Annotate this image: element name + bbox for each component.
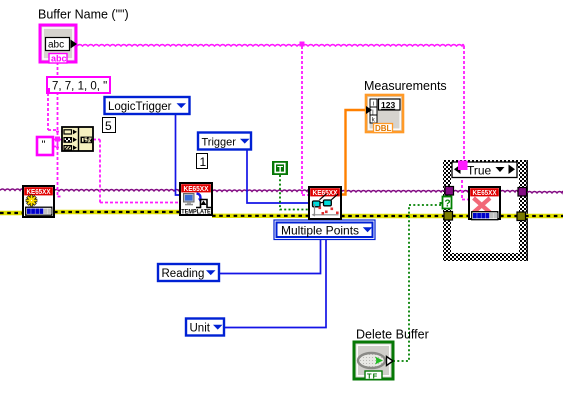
svg-text:KE65XX: KE65XX xyxy=(184,184,209,193)
svg-text:True: True xyxy=(467,164,492,178)
svg-text:T: T xyxy=(277,164,283,175)
svg-text:TF: TF xyxy=(367,371,378,380)
svg-text:KE65XX: KE65XX xyxy=(473,188,497,197)
svg-text:DBL: DBL xyxy=(375,124,392,133)
svg-text:abc: abc xyxy=(51,54,67,64)
svg-text:": " xyxy=(42,139,46,151)
svg-text:i: i xyxy=(373,101,374,107)
svg-text:Trigger: Trigger xyxy=(202,136,237,148)
svg-text:7, 7, 1, 0, ": 7, 7, 1, 0, " xyxy=(52,81,107,93)
svg-text:LogicTrigger: LogicTrigger xyxy=(108,101,172,113)
svg-text:123: 123 xyxy=(381,100,395,110)
svg-text:Delete Buffer: Delete Buffer xyxy=(356,328,429,342)
svg-text:1: 1 xyxy=(200,155,207,169)
svg-text:abc: abc xyxy=(48,40,64,51)
svg-text:Reading: Reading xyxy=(162,268,205,280)
svg-text:TEMPLATE: TEMPLATE xyxy=(181,209,211,216)
svg-text:5: 5 xyxy=(105,119,112,133)
svg-text:Unit: Unit xyxy=(190,322,211,334)
svg-text:Multiple Points: Multiple Points xyxy=(281,224,359,238)
svg-text:?: ? xyxy=(445,199,451,210)
svg-text:Measurements: Measurements xyxy=(364,79,447,93)
svg-text:Buffer Name (""): Buffer Name ("") xyxy=(38,8,129,22)
